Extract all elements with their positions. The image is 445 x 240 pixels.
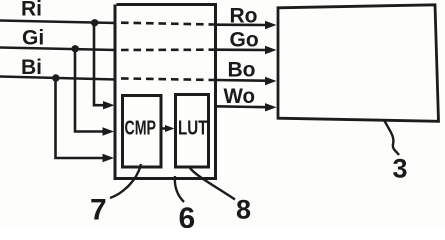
- svg-text:Gi: Gi: [22, 26, 44, 49]
- svg-text:Ri: Ri: [21, 0, 42, 21]
- svg-text:7: 7: [90, 194, 107, 227]
- svg-text:Go: Go: [230, 28, 259, 51]
- svg-text:Wo: Wo: [224, 85, 256, 108]
- svg-text:6: 6: [179, 202, 196, 228]
- svg-text:CMP: CMP: [125, 117, 157, 140]
- svg-text:Bo: Bo: [228, 58, 256, 81]
- svg-text:Bi: Bi: [21, 56, 42, 79]
- svg-text:LUT: LUT: [178, 117, 208, 140]
- svg-text:Ro: Ro: [230, 4, 258, 27]
- svg-text:3: 3: [393, 154, 408, 184]
- svg-text:8: 8: [236, 195, 251, 225]
